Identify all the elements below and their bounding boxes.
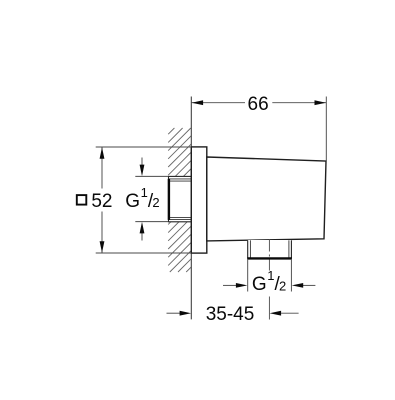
svg-text:66: 66	[248, 94, 269, 115]
label G1/2 bottom	[252, 268, 287, 295]
dimension G1/2 left arrows	[135, 158, 168, 241]
dimension G1/2 bottom	[223, 260, 315, 292]
svg-text:35-45: 35-45	[206, 304, 255, 325]
bottom outlet thread G1/2	[247, 240, 292, 258]
square symbol of dimension 52	[77, 195, 87, 205]
wall face line	[190, 97, 192, 320]
svg-text:G1/2: G1/2	[125, 185, 159, 212]
dimension square 52	[91, 147, 191, 253]
dimension 35-45	[167, 304, 299, 325]
wall hatching	[168, 128, 191, 272]
outlet centerline	[268, 240, 270, 320]
union body	[207, 157, 326, 241]
label G1/2 left	[125, 185, 159, 212]
svg-text:52: 52	[91, 191, 112, 212]
dimension 66	[191, 94, 326, 161]
rear inlet thread G1/2	[169, 176, 192, 221]
flange plate	[191, 147, 207, 253]
